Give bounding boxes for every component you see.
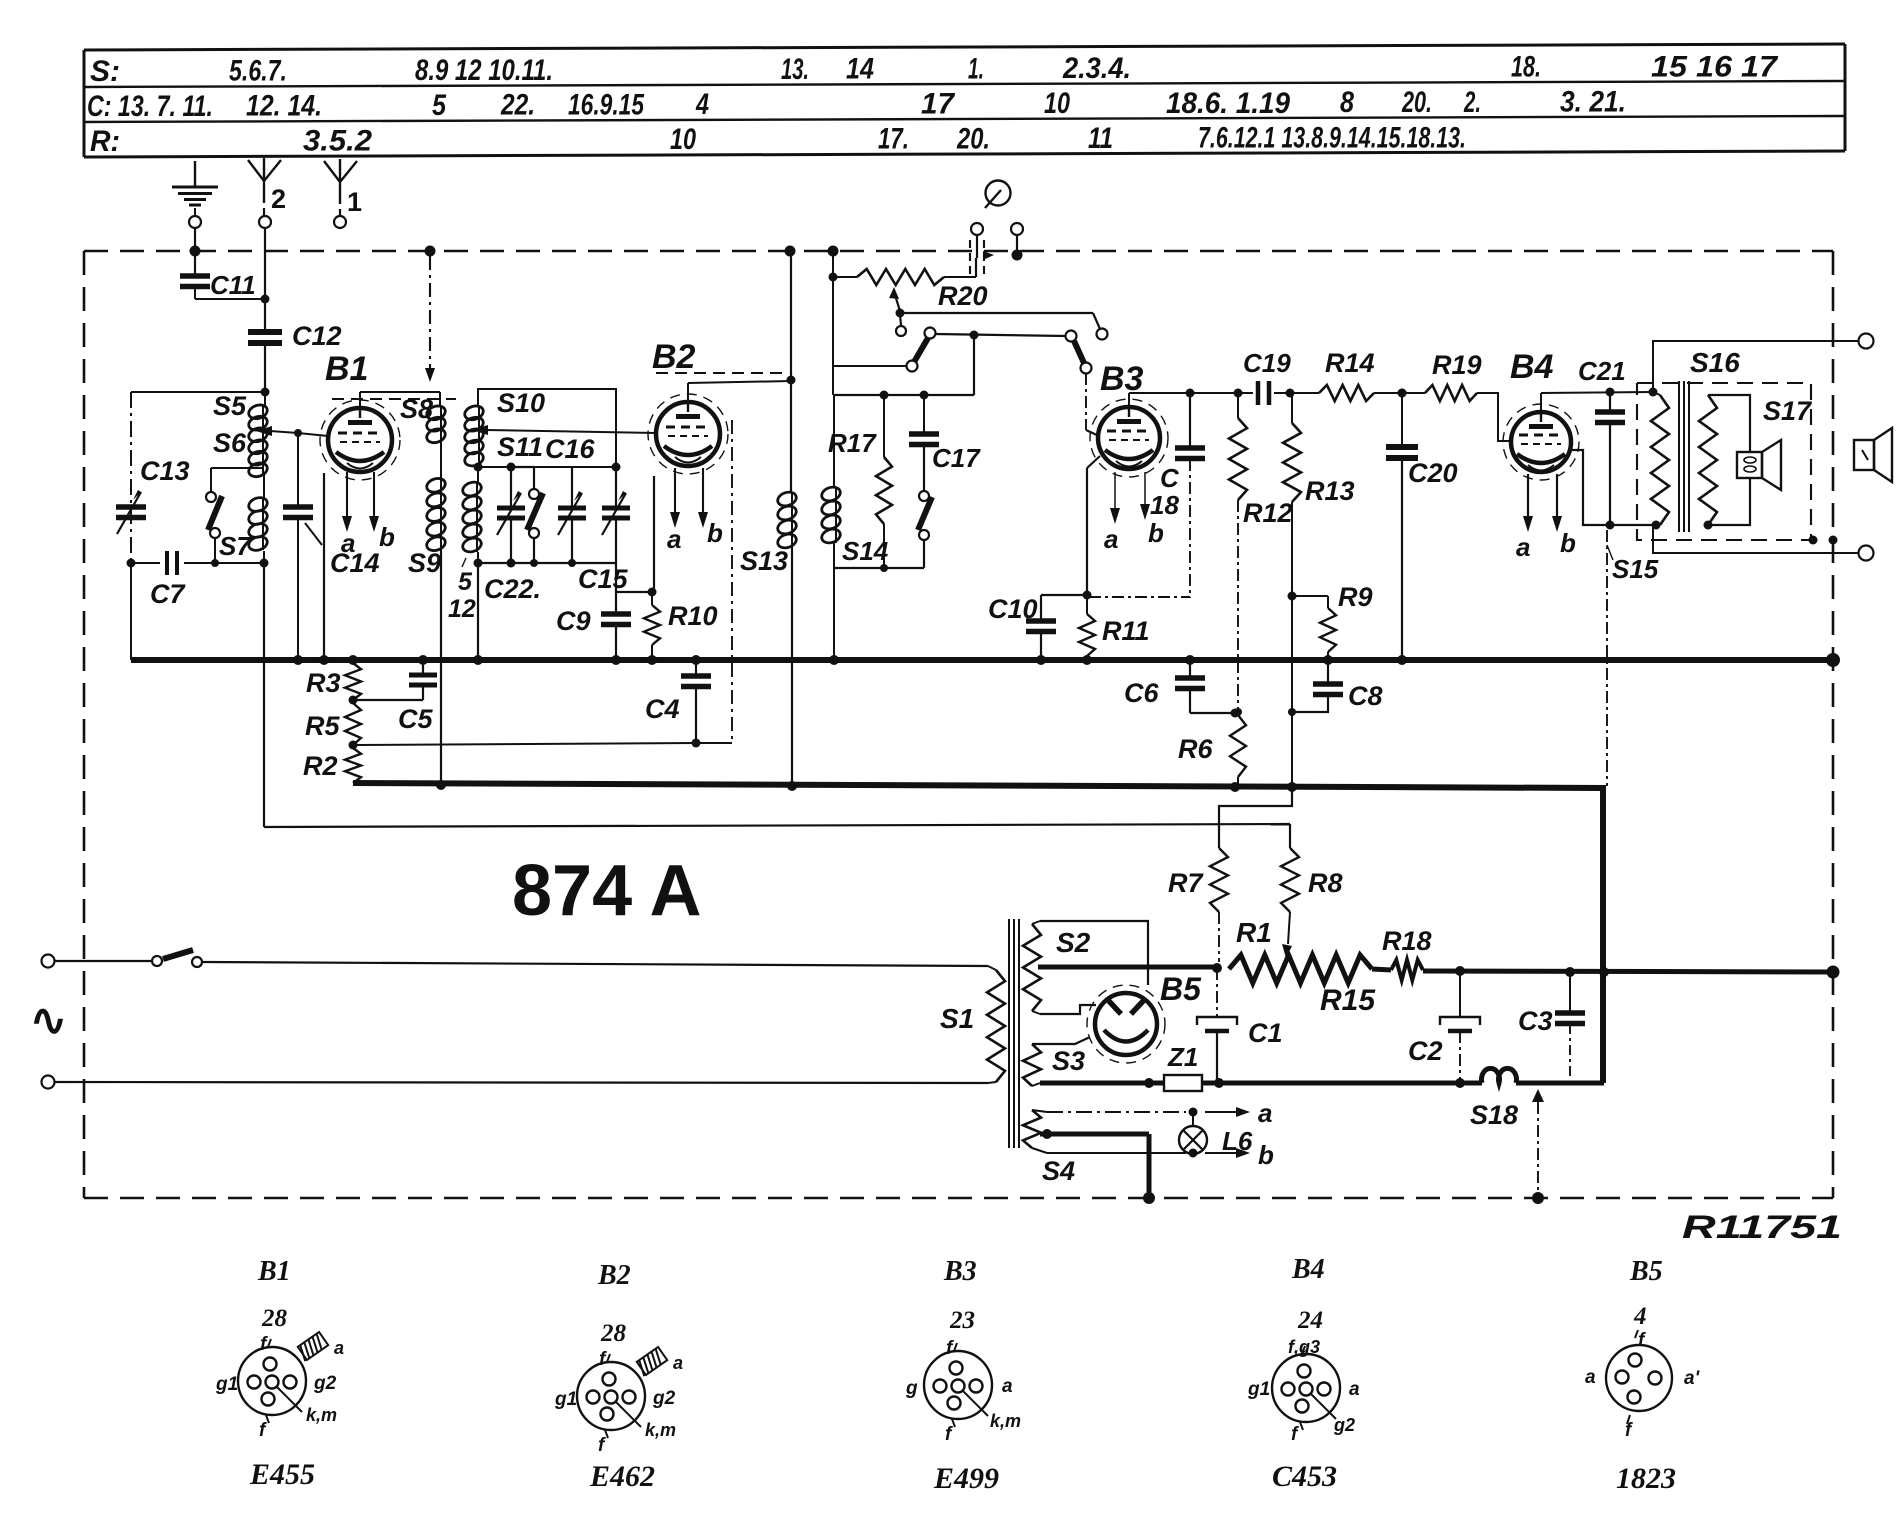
svg-text:874 A: 874 A bbox=[512, 851, 701, 931]
tube B5 rectifier bbox=[1087, 985, 1165, 1063]
capacitor C17 bbox=[909, 395, 981, 491]
svg-text:C19: C19 bbox=[1243, 348, 1291, 378]
svg-text:S2: S2 bbox=[1056, 927, 1091, 958]
switch contact W2 bbox=[1066, 331, 1077, 342]
svg-text:b: b bbox=[707, 518, 723, 548]
resistor R1 R15 bbox=[1229, 917, 1376, 1017]
table frame bbox=[84, 44, 1845, 157]
resistor R14 bbox=[1319, 348, 1375, 401]
S18 chassis lead bbox=[1532, 1089, 1544, 1198]
node on border bottom at S4 tap bbox=[1143, 1192, 1155, 1204]
label S 12 bbox=[448, 558, 476, 623]
svg-text:R15: R15 bbox=[1320, 984, 1376, 1017]
chassis dashed border bbox=[84, 251, 1833, 1198]
B2 pin a bbox=[667, 468, 681, 554]
ground symbol bbox=[172, 161, 218, 216]
resistor R6 bbox=[1178, 713, 1246, 786]
svg-text:S4: S4 bbox=[1042, 1156, 1075, 1186]
svg-text:B4: B4 bbox=[1291, 1254, 1325, 1285]
coil S13 bbox=[740, 490, 798, 576]
coil S6 bbox=[213, 428, 269, 479]
wire B2 cathode bbox=[653, 476, 655, 592]
socket B3 bbox=[905, 1307, 1021, 1495]
svg-text:b: b bbox=[1560, 528, 1576, 558]
svg-text:R3: R3 bbox=[306, 668, 341, 698]
node on border at shield line bbox=[425, 246, 436, 257]
wire to S13 bbox=[790, 380, 792, 492]
wire R20 left vertical bbox=[829, 251, 838, 395]
capacitor C11 bbox=[180, 270, 256, 300]
coil S11 bbox=[463, 432, 543, 468]
mains switch bbox=[54, 950, 202, 967]
wire B2 anode to border bbox=[790, 251, 792, 380]
svg-text:a: a bbox=[1585, 1367, 1596, 1388]
resistor R5 bbox=[305, 703, 361, 750]
transformer S1 primary bbox=[940, 966, 1005, 1083]
svg-text:R19: R19 bbox=[1432, 350, 1482, 380]
tube B1 bbox=[320, 400, 400, 480]
svg-text:R11751: R11751 bbox=[1682, 1209, 1842, 1245]
svg-text:18.: 18. bbox=[1511, 51, 1541, 84]
svg-text:5.6.7.: 5.6.7. bbox=[229, 55, 287, 88]
svg-text:R13: R13 bbox=[1305, 476, 1355, 506]
svg-text:S3: S3 bbox=[1052, 1046, 1085, 1076]
svg-text:C2: C2 bbox=[1408, 1036, 1443, 1066]
capacitor C16 variable bbox=[545, 434, 596, 567]
coil S9 bbox=[408, 476, 447, 578]
AVC wire bbox=[264, 824, 1290, 827]
svg-text:g2: g2 bbox=[652, 1388, 676, 1409]
resistor R10 bbox=[644, 592, 718, 660]
svg-text:8: 8 bbox=[1340, 86, 1354, 119]
resistor R19 bbox=[1425, 350, 1482, 401]
wire W2 bbox=[935, 331, 1066, 340]
svg-text:b: b bbox=[1148, 518, 1164, 548]
svg-text:R18: R18 bbox=[1382, 926, 1432, 956]
socket B4 bbox=[1247, 1307, 1360, 1493]
coil S6 lower half bbox=[247, 475, 269, 568]
svg-text:C17: C17 bbox=[932, 443, 981, 473]
svg-text:a: a bbox=[1258, 1098, 1272, 1128]
svg-text:g1: g1 bbox=[215, 1374, 238, 1395]
svg-text:R11: R11 bbox=[1102, 616, 1150, 646]
wire S2 top to B5 bbox=[1040, 921, 1148, 985]
svg-text:R20: R20 bbox=[938, 281, 988, 311]
S16 primary bbox=[1651, 392, 1669, 525]
winding S2 bbox=[1023, 921, 1091, 1014]
svg-text:7.6.12.1 13.8.9.14.15.18.13.: 7.6.12.1 13.8.9.14.15.18.13. bbox=[1198, 122, 1466, 155]
choke S18 bbox=[1470, 1068, 1604, 1130]
svg-text:B2: B2 bbox=[652, 338, 696, 376]
antenna 2 symbol bbox=[248, 158, 286, 216]
svg-text:12. 14.: 12. 14. bbox=[246, 90, 322, 123]
label S15 bbox=[1607, 545, 1659, 584]
svg-text:a: a bbox=[1002, 1376, 1013, 1397]
svg-text:a: a bbox=[334, 1338, 344, 1358]
svg-text:1.: 1. bbox=[968, 52, 984, 85]
dashed can line B2 bbox=[656, 372, 786, 374]
wire W1 slider to switch bbox=[900, 313, 1100, 329]
S16 can dashed box bbox=[1637, 383, 1811, 540]
B1 anode wire bbox=[360, 392, 440, 408]
S16 secondary bbox=[1699, 395, 1717, 525]
wire S16 to top terminal bbox=[1653, 341, 1858, 392]
svg-text:R:: R: bbox=[90, 125, 120, 158]
svg-text:C: 13. 7. 11.: C: 13. 7. 11. bbox=[87, 90, 213, 123]
svg-text:S16: S16 bbox=[1690, 347, 1740, 378]
svg-text:3. 21.: 3. 21. bbox=[1560, 86, 1626, 119]
svg-text:B1: B1 bbox=[257, 1256, 291, 1287]
svg-text:a: a bbox=[1104, 524, 1118, 554]
capacitor C8 bbox=[1292, 660, 1383, 712]
capacitor C4 bbox=[645, 660, 711, 743]
svg-text:S9: S9 bbox=[408, 548, 441, 578]
winding S4 bbox=[1023, 1110, 1075, 1186]
coil S8 bbox=[400, 394, 447, 445]
node on border at ground lead bbox=[190, 246, 201, 257]
resistor R18 bbox=[1372, 926, 1432, 980]
svg-text:C6: C6 bbox=[1124, 678, 1159, 708]
svg-text:2.: 2. bbox=[1463, 86, 1481, 119]
svg-text:E455: E455 bbox=[249, 1458, 315, 1491]
capacitor C10 bbox=[988, 594, 1087, 660]
ground terminal bbox=[189, 216, 201, 228]
B3 anode wire bbox=[1129, 389, 1253, 408]
svg-text:R17: R17 bbox=[828, 428, 877, 458]
svg-text:∿: ∿ bbox=[30, 996, 67, 1045]
svg-text:R12: R12 bbox=[1243, 498, 1293, 528]
svg-text:C13: C13 bbox=[140, 456, 190, 486]
B3 pin a bbox=[1104, 472, 1120, 554]
svg-text:R10: R10 bbox=[668, 601, 718, 631]
svg-text:12: 12 bbox=[448, 595, 476, 623]
svg-text:15 16 17: 15 16 17 bbox=[1651, 50, 1778, 83]
antenna 1 symbol bbox=[324, 159, 362, 217]
wire R14 to R19 bbox=[1374, 389, 1425, 398]
wire C12 to node bbox=[261, 343, 270, 397]
HT wire S2 tap bbox=[1038, 963, 1222, 973]
wire S14 bottom rail bbox=[834, 564, 924, 660]
wire ground to C11 bbox=[194, 228, 196, 274]
svg-text:24: 24 bbox=[1297, 1307, 1323, 1334]
svg-text:S5: S5 bbox=[213, 391, 247, 421]
tube B2 bbox=[648, 394, 728, 474]
svg-text:b: b bbox=[1258, 1140, 1274, 1170]
svg-text:C11: C11 bbox=[210, 270, 256, 300]
svg-text:S7: S7 bbox=[219, 531, 252, 561]
resistor R8 bbox=[1281, 824, 1343, 958]
svg-text:5: 5 bbox=[458, 568, 473, 596]
wire B1 cathode to bus bbox=[323, 473, 325, 660]
svg-text:E462: E462 bbox=[589, 1460, 655, 1493]
capacitor C1 bbox=[1197, 968, 1283, 1083]
antenna 2 terminal bbox=[259, 216, 271, 228]
svg-text:a: a bbox=[341, 528, 355, 558]
svg-text:2.3.4.: 2.3.4. bbox=[1062, 52, 1131, 85]
table row labels S C R bbox=[87, 50, 1778, 158]
svg-text:g: g bbox=[905, 1378, 918, 1399]
bias bus wire bbox=[353, 780, 1603, 1083]
svg-text:R1: R1 bbox=[1236, 917, 1272, 948]
capacitor C6 bbox=[1124, 660, 1240, 718]
switch lever left bbox=[907, 328, 936, 372]
tube B4 bbox=[1503, 404, 1579, 480]
svg-text:a': a' bbox=[1684, 1368, 1701, 1389]
resistor R17 bbox=[828, 395, 892, 568]
svg-text:C453: C453 bbox=[1272, 1460, 1337, 1493]
svg-text:C12: C12 bbox=[292, 321, 342, 351]
svg-text:g2: g2 bbox=[313, 1373, 337, 1394]
svg-text:C22.: C22. bbox=[484, 574, 541, 604]
svg-text:B5: B5 bbox=[1160, 971, 1202, 1007]
svg-text:18: 18 bbox=[1150, 490, 1179, 520]
svg-text:B4: B4 bbox=[1510, 348, 1554, 386]
B4 anode wire bbox=[1541, 388, 1658, 413]
svg-text:C3: C3 bbox=[1518, 1006, 1553, 1036]
socket B5 bbox=[1585, 1303, 1701, 1495]
svg-text:S14: S14 bbox=[842, 536, 889, 566]
svg-text:18.6. 1.19: 18.6. 1.19 bbox=[1166, 87, 1290, 120]
B4 side wire to S16 bbox=[1568, 450, 1661, 530]
svg-text:C9: C9 bbox=[556, 606, 591, 636]
wire R5 tap bbox=[353, 739, 732, 748]
svg-text:4: 4 bbox=[695, 88, 709, 121]
svg-text:a: a bbox=[673, 1353, 683, 1373]
wire node to left frame bbox=[131, 391, 265, 393]
node on border at pickup terminal 2 bbox=[1012, 250, 1023, 261]
heater line b bbox=[1032, 1140, 1274, 1170]
resistor R11 bbox=[1079, 595, 1150, 660]
capacitor C13 variable bbox=[116, 456, 190, 534]
svg-text:28: 28 bbox=[261, 1305, 288, 1332]
B3 cathode wire bbox=[1083, 456, 1101, 600]
switch lever right bbox=[1074, 341, 1092, 374]
svg-text:C21: C21 bbox=[1578, 356, 1626, 386]
external speaker bbox=[1854, 428, 1892, 482]
tap arrow S5 S6 bbox=[256, 426, 298, 436]
svg-text:S1: S1 bbox=[940, 1003, 974, 1034]
S16 core bbox=[1679, 381, 1689, 532]
svg-text:C16: C16 bbox=[545, 434, 596, 464]
svg-text:B2: B2 bbox=[597, 1260, 631, 1291]
ground bus wire bbox=[131, 653, 1840, 667]
svg-text:S18: S18 bbox=[1470, 1100, 1518, 1130]
wire S9 to bus2 bbox=[440, 551, 442, 786]
resistor R9 bbox=[1292, 582, 1373, 660]
svg-text:14: 14 bbox=[846, 53, 874, 86]
svg-text:10: 10 bbox=[670, 123, 696, 156]
svg-text:C7: C7 bbox=[150, 579, 186, 609]
svg-text:1: 1 bbox=[347, 187, 362, 217]
heater wire to S18 bbox=[1202, 1078, 1482, 1088]
svg-text:22.: 22. bbox=[500, 89, 535, 122]
wire C11 to antenna2 line bbox=[195, 295, 270, 304]
svg-text:B5: B5 bbox=[1629, 1256, 1663, 1287]
pickup symbol bbox=[985, 181, 1011, 209]
svg-text:R5: R5 bbox=[305, 711, 340, 741]
switch in IF can bbox=[511, 467, 543, 567]
B2 anode wire bbox=[688, 376, 796, 403]
resistor R20 bbox=[833, 258, 988, 311]
svg-text:C8: C8 bbox=[1348, 681, 1383, 711]
svg-text:R8: R8 bbox=[1308, 868, 1343, 898]
svg-text:R9: R9 bbox=[1338, 582, 1373, 612]
node on border at B2 anode line bbox=[785, 246, 796, 257]
resistor R2 bbox=[303, 748, 361, 783]
svg-text:17.: 17. bbox=[878, 123, 909, 156]
lamp L6 bbox=[1179, 1112, 1253, 1156]
svg-text:k,m: k,m bbox=[306, 1405, 337, 1425]
wire left frame vertical bbox=[127, 392, 136, 660]
capacitor C20 bbox=[1386, 389, 1458, 661]
IF can frame bbox=[478, 389, 616, 467]
plug dashed symbol bbox=[970, 240, 994, 277]
svg-text:a: a bbox=[667, 524, 681, 554]
resistor R3 bbox=[306, 663, 361, 705]
wire R19 to B4 grid bbox=[1477, 393, 1511, 441]
node on border bottom at S18 lead bbox=[1532, 1192, 1544, 1204]
capacitor C5 bbox=[353, 660, 437, 734]
svg-text:5: 5 bbox=[432, 89, 447, 122]
tap arrow S10 bbox=[472, 425, 656, 435]
wire switch junction down bbox=[973, 335, 975, 395]
wire B1 grid bbox=[294, 429, 328, 437]
svg-text:B1: B1 bbox=[325, 350, 368, 388]
dashed can line B1 S8 bbox=[332, 398, 456, 400]
svg-text:S10: S10 bbox=[497, 388, 545, 418]
svg-text:17: 17 bbox=[921, 87, 955, 120]
svg-text:b: b bbox=[379, 522, 395, 552]
svg-text:4: 4 bbox=[1633, 1303, 1647, 1330]
mains terminal 2 bbox=[42, 1076, 55, 1089]
svg-text:R2: R2 bbox=[303, 751, 338, 781]
svg-text:20.: 20. bbox=[956, 122, 990, 155]
HT wire right bbox=[1423, 966, 1840, 979]
transformer core bbox=[1009, 919, 1019, 1148]
output terminal top bbox=[1859, 334, 1874, 349]
node on border at R20 line bbox=[828, 246, 839, 257]
svg-text:E499: E499 bbox=[933, 1462, 999, 1495]
B2 pin b bbox=[698, 468, 723, 548]
svg-text:S15: S15 bbox=[1612, 554, 1659, 584]
B4 pin a bbox=[1516, 474, 1533, 562]
resistor R12 bbox=[1229, 389, 1293, 717]
svg-text:8.9 12 10.11.: 8.9 12 10.11. bbox=[415, 54, 553, 87]
wire C17 top rail bbox=[833, 391, 974, 400]
IF can bottom wire bbox=[478, 563, 657, 597]
mains wire bottom bbox=[54, 1082, 988, 1083]
svg-text:16.9.15: 16.9.15 bbox=[568, 89, 645, 122]
fuse Z1 bbox=[1164, 1042, 1202, 1091]
S15 field line bbox=[1606, 530, 1608, 786]
capacitor C15 variable bbox=[578, 467, 630, 594]
wire S11 node bbox=[474, 463, 621, 472]
coil S5 bbox=[213, 391, 269, 444]
wire switch stub bbox=[833, 365, 907, 367]
svg-text:3.5.2: 3.5.2 bbox=[303, 124, 372, 157]
mains wire top bbox=[202, 962, 988, 966]
svg-text:B3: B3 bbox=[943, 1256, 977, 1287]
B3 pin b bbox=[1140, 472, 1164, 548]
wire S2 bottom to B5 bbox=[1040, 1005, 1096, 1014]
switch S7 bbox=[206, 468, 264, 567]
capacitor C14 bbox=[283, 433, 380, 660]
svg-text:1823: 1823 bbox=[1616, 1462, 1676, 1495]
svg-text:C10: C10 bbox=[988, 594, 1038, 624]
svg-text:C: C bbox=[1160, 463, 1180, 493]
svg-text:R6: R6 bbox=[1178, 734, 1213, 764]
svg-text:k,m: k,m bbox=[645, 1420, 676, 1440]
svg-text:R14: R14 bbox=[1325, 348, 1375, 378]
tube B3 bbox=[1090, 399, 1168, 477]
switch below C17 bbox=[918, 491, 932, 568]
pickup terminal 2 bbox=[1011, 223, 1023, 235]
svg-text:2: 2 bbox=[271, 184, 286, 214]
resistor R7 bbox=[1168, 787, 1292, 962]
svg-text:23: 23 bbox=[949, 1307, 975, 1334]
svg-text:a: a bbox=[1349, 1379, 1360, 1400]
capacitor C22 variable bbox=[484, 467, 541, 604]
svg-text:S8: S8 bbox=[400, 394, 433, 424]
mains terminal 1 bbox=[42, 955, 55, 968]
svg-text:S:: S: bbox=[90, 55, 120, 88]
svg-text:11: 11 bbox=[1088, 122, 1113, 155]
svg-text:g2: g2 bbox=[1333, 1415, 1355, 1435]
output terminal bottom bbox=[1859, 546, 1874, 561]
S4 tap wire bbox=[1040, 1129, 1149, 1198]
switch contact W1 bbox=[1097, 329, 1108, 340]
svg-text:28: 28 bbox=[600, 1320, 627, 1347]
capacitor C3 bbox=[1518, 972, 1585, 1076]
pickup terminal stems bbox=[977, 235, 1017, 258]
winding S3 bbox=[1023, 1037, 1090, 1086]
resistor R13 bbox=[1283, 393, 1355, 787]
socket B1 bbox=[215, 1305, 344, 1491]
capacitor C7 bbox=[131, 551, 264, 609]
shield line to B1 can bbox=[425, 256, 435, 382]
svg-text:S17: S17 bbox=[1763, 396, 1813, 426]
B1 pin a bbox=[341, 472, 355, 558]
socket B2 bbox=[554, 1320, 683, 1493]
capacitor C19 bbox=[1243, 348, 1291, 405]
capacitor C18 bbox=[1089, 393, 1205, 598]
svg-text:g1: g1 bbox=[554, 1389, 577, 1410]
svg-text:20.: 20. bbox=[1401, 86, 1432, 119]
capacitor C2 bbox=[1408, 971, 1480, 1088]
B4 pin b bbox=[1552, 474, 1576, 558]
wire S13 to bus2 bbox=[791, 548, 793, 786]
coil S12 bbox=[461, 467, 483, 660]
speaker S17 bbox=[1704, 395, 1814, 530]
antenna 1 terminal bbox=[334, 216, 346, 228]
capacitor C9 bbox=[556, 592, 631, 660]
heater wire Z1 bbox=[1040, 1078, 1164, 1088]
coil S14 bbox=[820, 395, 889, 568]
capacitor C21 bbox=[1578, 356, 1626, 525]
pickup terminal 1 bbox=[971, 223, 983, 235]
svg-text:C4: C4 bbox=[645, 694, 680, 724]
coil S10 bbox=[463, 388, 545, 445]
svg-text:Z1: Z1 bbox=[1167, 1042, 1198, 1072]
svg-text:S6: S6 bbox=[213, 428, 247, 458]
wire AVC line down bbox=[263, 563, 265, 827]
svg-text:C15: C15 bbox=[578, 564, 629, 594]
svg-text:C20: C20 bbox=[1408, 458, 1458, 488]
wire switch to B3 grid bbox=[1086, 373, 1099, 436]
svg-text:f,g3: f,g3 bbox=[1288, 1337, 1320, 1357]
wire antenna 2 down bbox=[264, 228, 266, 330]
capacitor C12 bbox=[248, 321, 342, 351]
